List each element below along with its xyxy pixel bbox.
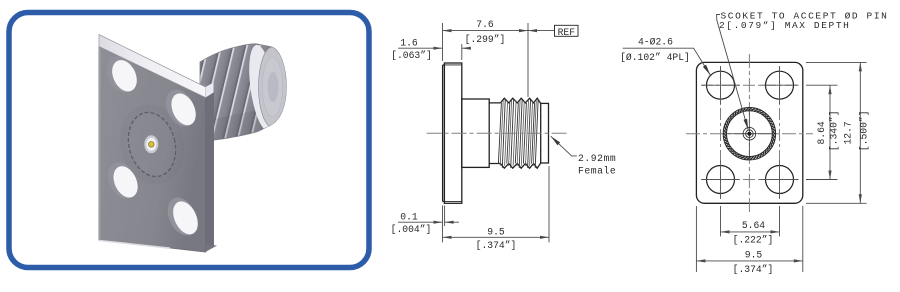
side view: flange outline: [444, 63, 461, 203]
svg-text:0.1: 0.1: [400, 211, 418, 222]
front view: center crosshair: [728, 133, 772, 135]
side view: thread top profile: [489, 98, 541, 103]
dimension 12.7: [806, 62, 867, 203]
svg-text:[Ø.102” 4PL]: [Ø.102” 4PL]: [620, 52, 690, 63]
svg-text:1.6: 1.6: [400, 37, 418, 48]
3D connector: flange hole top-right: [160, 85, 200, 131]
svg-text:9.5: 9.5: [487, 227, 505, 238]
svg-text:12.7: 12.7: [843, 121, 854, 144]
front view: hole crosshairs: [702, 66, 799, 198]
3D connector: flange top-right corner patch: [206, 83, 214, 98]
svg-text:7.6: 7.6: [476, 19, 494, 30]
dimension 9.5 (side view): [443, 166, 550, 242]
label 2.92mm Female leader: [551, 136, 577, 156]
3D connector: flange right side band: [206, 92, 215, 252]
3D connector: central recess ring: [122, 107, 182, 181]
svg-text:[.299”]: [.299”]: [465, 34, 506, 45]
front view: socket center dot: [747, 132, 751, 136]
front view: hole column centerlines: [720, 66, 722, 199]
side view: barrel: [462, 99, 489, 167]
3D connector: threaded barrel body: [196, 43, 290, 145]
svg-text:[.374”]: [.374”]: [476, 240, 517, 251]
svg-text:REF: REF: [558, 27, 576, 38]
3D connector: flange bottom edge highlight: [100, 241, 171, 249]
side view: centerline: [427, 132, 568, 134]
dimension 5.64: [721, 206, 780, 236]
front view: flange plate: [696, 62, 802, 203]
front view: centerline vertical: [748, 54, 750, 212]
side view: thread bottom profile: [489, 163, 541, 168]
3D connector: barrel end face: [259, 47, 287, 127]
svg-text:2.92mm: 2.92mm: [578, 153, 616, 164]
side view: flange front 0.1 boss line: [442, 65, 444, 202]
3D connector: center insulator: [144, 135, 158, 153]
front view: mounting holes: [707, 71, 794, 193]
3D connector: flange hole top-left: [101, 51, 142, 97]
dimension 7.6 REF: [443, 23, 579, 97]
svg-text:[.004”]: [.004”]: [391, 224, 432, 235]
dimension 9.5 (front view): [696, 206, 802, 272]
svg-text:[.374”]: [.374”]: [733, 264, 774, 275]
svg-text:8.64: 8.64: [816, 121, 827, 144]
svg-text:[.340”]: [.340”]: [829, 110, 840, 151]
3D connector: flange hole bottom-right: [162, 193, 203, 241]
side view: thread flank lines: [498, 99, 538, 168]
dimension 0.1: [398, 206, 459, 243]
dimension 8.64: [806, 85, 838, 179]
side view: connector end ring: [541, 103, 549, 163]
3D connector: barrel end collar: [245, 43, 281, 132]
svg-text:[.500”]: [.500”]: [859, 110, 870, 151]
svg-text:Female: Female: [578, 166, 616, 177]
3D connector: recess shadow: [116, 102, 188, 187]
3D connector: flange hole bottom-left: [102, 158, 142, 204]
svg-text:4-Ø2.6: 4-Ø2.6: [638, 37, 673, 48]
dimension 1.6: [398, 44, 471, 60]
svg-text:[.222”]: [.222”]: [733, 235, 774, 246]
front view: centerline horizontal: [686, 133, 813, 135]
front view: knurled interface ring: [723, 108, 775, 160]
svg-text:9.5: 9.5: [745, 249, 763, 260]
svg-text:2[.079”] MAX DEPTH: 2[.079”] MAX DEPTH: [719, 20, 850, 31]
3D connector: flange front face: [99, 47, 206, 253]
front view: hole row centerlines: [701, 84, 799, 86]
3D connector: gold center pin: [149, 142, 155, 148]
3D connector: thread shading overlay: [196, 43, 290, 145]
side view: flange edge chamfer lines: [444, 64, 461, 66]
svg-text:5.64: 5.64: [742, 220, 765, 231]
3D connector: flange left edge highlight: [99, 47, 101, 240]
front view: dielectric circle: [743, 127, 756, 140]
blue rounded frame: [9, 13, 369, 268]
front view: socket ring: [746, 130, 754, 138]
3D connector: flange bottom-right sliver: [150, 240, 217, 252]
svg-text:[.063”]: [.063”]: [391, 50, 432, 61]
3D connector: flange top face strip: [99, 35, 206, 98]
